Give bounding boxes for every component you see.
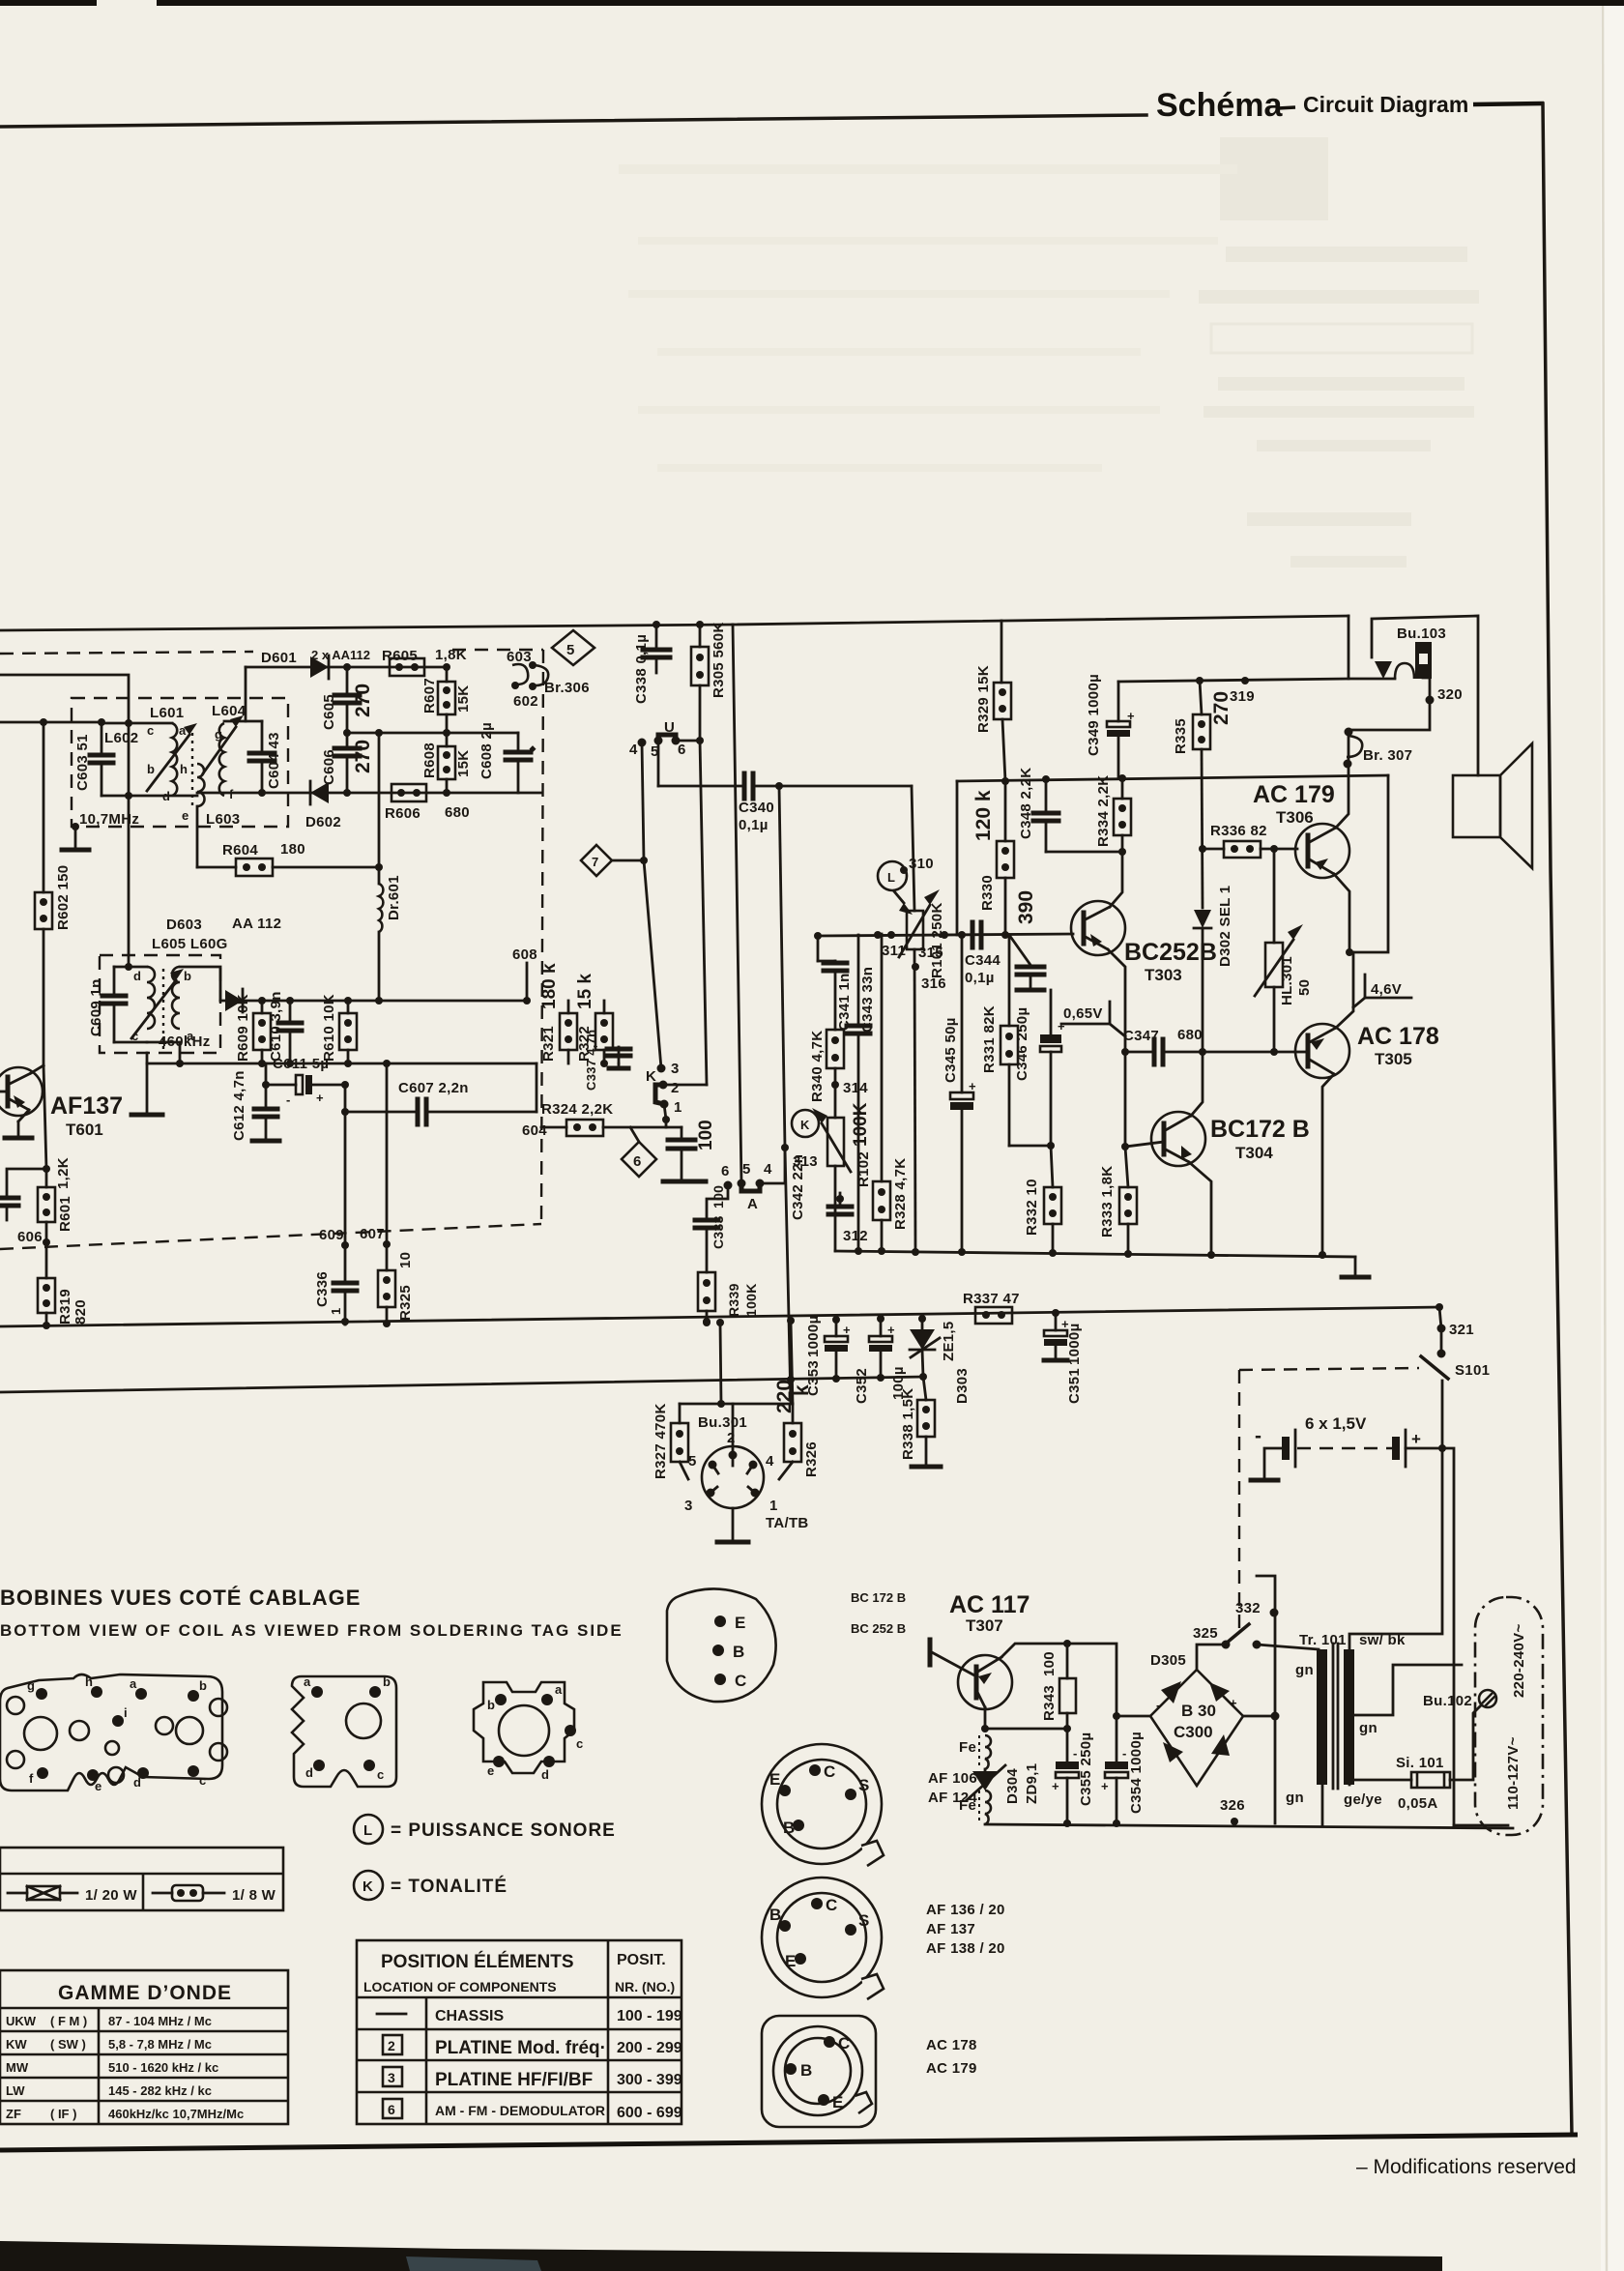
capacitor C355 250u [1056,1761,1079,1769]
svg-text:R332 10: R332 10 [1024,1179,1040,1236]
svg-text:R608: R608 [421,742,438,778]
capacitor C343 33n [857,935,860,1024]
wire AC117 collector node [985,1707,1067,1729]
svg-text:326: 326 [1220,1797,1245,1814]
svg-text:E: E [735,1614,745,1632]
svg-text:S: S [858,1776,869,1794]
capacitor C609 1n [113,967,116,994]
wire A pin4 down then to R326 drop [760,1148,785,1183]
diamond 6 [630,1127,639,1142]
svg-text:T304: T304 [1235,1144,1273,1162]
wire rail y806 [957,775,1388,781]
svg-text:220-240V~: 220-240V~ [1511,1623,1527,1698]
svg-text:15K: 15K [455,685,472,713]
resistor R338 1,5K [923,1377,926,1400]
wire pin5 down to C340 row [657,741,660,786]
svg-text:R326: R326 [803,1441,820,1477]
svg-text:+: + [1052,1779,1059,1793]
svg-text:L602: L602 [104,730,138,746]
svg-text:R340 4,7K: R340 4,7K [809,1031,826,1102]
svg-text:460kHz/kc 10,7MHz/Mc: 460kHz/kc 10,7MHz/Mc [108,2107,244,2121]
svg-text:321: 321 [1449,1322,1474,1338]
svg-text:E: E [785,1952,796,1970]
svg-text:b: b [487,1698,495,1712]
capacitor C610 3,9n [289,1001,292,1021]
svg-text:e: e [182,808,188,823]
ground [62,848,89,853]
svg-text:= PUISSANCE SONORE: = PUISSANCE SONORE [391,1820,616,1841]
svg-text:LW: LW [6,2083,25,2098]
module dashed box right edge [541,650,543,1224]
legend K = TONALITE [354,1871,383,1900]
resistor R605 [390,658,424,676]
wire AC117 base feed [928,1640,933,1665]
resistor R604 [197,866,236,869]
capacitor C608 2u [517,733,520,750]
wire 812 node down to Y1 [785,1148,791,1404]
svg-text:L603: L603 [206,811,240,828]
coil L60G [172,967,180,1029]
svg-text:Si. 101: Si. 101 [1396,1755,1444,1771]
svg-text:b: b [199,1678,207,1693]
svg-text:S: S [858,1911,869,1930]
svg-text:R602 150: R602 150 [55,865,72,930]
capacitor C337 4,7n [618,1047,621,1063]
svg-text:120 k: 120 k [972,790,995,841]
oscillator Fe coil top [985,1735,991,1769]
capacitor C345 50u [961,935,964,1092]
svg-text:ZF: ZF [6,2107,21,2121]
svg-text:606: 606 [17,1229,43,1245]
bottom thick rule [0,2135,1578,2150]
wire row D603 y1035 [220,1000,527,1003]
svg-text:AF 124: AF 124 [928,1790,977,1806]
svg-text:( IF ): ( IF ) [50,2107,76,2121]
svg-text:C612 4,7n: C612 4,7n [231,1070,247,1141]
diode D601 [310,656,329,678]
svg-text:Br.306: Br.306 [544,680,590,696]
thermistor HL301 50 [1273,849,1276,943]
capacitor C604 43 [249,751,275,756]
wire junction to cap100 [666,1126,681,1129]
svg-text:AC 179: AC 179 [926,2060,977,2077]
svg-text:6: 6 [678,742,686,758]
svg-text:h: h [180,762,188,776]
resistor R606 [391,784,426,801]
wire D601 row y690 [246,666,447,669]
svg-text:680: 680 [445,804,470,821]
svg-text:k: k [791,1384,813,1396]
svg-text:1: 1 [769,1498,778,1514]
svg-text:C354 1000µ: C354 1000µ [1128,1732,1145,1814]
svg-text:Dr.601: Dr.601 [386,875,402,920]
node 332 [1270,1609,1279,1617]
faint bleed-through block upper right [1199,137,1479,568]
junction dots on Y2 [787,1376,795,1383]
svg-text:R324 2,2K: R324 2,2K [541,1101,613,1118]
svg-text:3: 3 [671,1061,680,1077]
svg-text:AC 178: AC 178 [1357,1023,1439,1050]
svg-text:R328 4,7K: R328 4,7K [892,1158,909,1230]
svg-text:-: - [1073,1746,1077,1761]
resistor R325 10 [378,1270,395,1307]
svg-text:sw/ bk: sw/ bk [1359,1632,1406,1648]
resistor R329 15K [1000,621,1003,683]
jack contact triangle [1375,661,1392,679]
coil bottom view 3 [474,1682,574,1773]
wire primary bottom to fuse [1349,1780,1411,1785]
svg-text:602: 602 [513,693,538,710]
resistor R322 15k [603,1001,606,1013]
capacitor C349 1000u [1117,734,1120,778]
capacitor C351 1000u [1055,1313,1058,1330]
svg-text:C347: C347 [1123,1028,1159,1044]
top black page edge bar [0,0,1624,6]
svg-text:2: 2 [671,1080,680,1096]
wire BC172B collector up to C347 node [1191,1052,1203,1116]
svg-text:-: - [1156,1698,1160,1712]
svg-text:a: a [179,723,187,738]
resistor R330 120k [1004,781,1007,841]
resistor R601 1,2K [45,1169,48,1187]
wire tank top rail [101,722,172,725]
svg-text:– Modifications reserved: – Modifications reserved [1356,2156,1577,2178]
svg-text:C336: C336 [314,1271,331,1307]
svg-text:270: 270 [352,684,374,717]
svg-text:B 30: B 30 [1181,1702,1216,1720]
svg-text:C349 1000µ: C349 1000µ [1086,674,1102,756]
svg-text:R338 1,5K: R338 1,5K [900,1388,916,1460]
svg-text:C343 33n: C343 33n [859,967,876,1033]
svg-text:D601: D601 [261,650,297,666]
svg-text:310: 310 [909,856,934,872]
svg-text:LOCATION OF COMPONENTS: LOCATION OF COMPONENTS [363,1979,557,1994]
svg-text:C605: C605 [321,694,337,730]
svg-text:T303: T303 [1145,966,1182,984]
svg-text:R605: R605 [382,648,418,664]
svg-text:0,65V: 0,65V [1063,1005,1103,1022]
svg-text:D603: D603 [166,917,202,933]
svg-text:e: e [95,1779,101,1793]
legend L = PUISSANCE SONORE [354,1815,383,1844]
svg-text:87 - 104 MHz / Mc: 87 - 104 MHz / Mc [108,2014,212,2028]
battery dashed box [1239,1368,1419,1370]
svg-text:607: 607 [360,1226,385,1242]
svg-text:R325: R325 [397,1285,414,1321]
svg-text:C337 4,7n: C337 4,7n [584,1030,598,1091]
svg-text:NR. (NO.): NR. (NO.) [615,1979,675,1994]
junction dots on Y1 [341,1318,349,1325]
svg-text:Fe: Fe [959,1739,976,1756]
wire diamond7 to pin4 line [612,859,644,862]
svg-text:1,2K: 1,2K [55,1157,72,1189]
svg-text:510 - 1620 kHz / kc: 510 - 1620 kHz / kc [108,2060,218,2075]
svg-text:315: 315 [918,945,943,961]
capacitor C344 0,1u [941,931,948,939]
svg-text:+: + [887,1323,895,1337]
wire bridge right to battery line [1243,1715,1275,1718]
diamond 5 [552,630,594,665]
svg-text:0,1µ: 0,1µ [739,817,768,833]
potentiometer R102 100K (K tone) [827,1118,844,1166]
svg-text:K: K [362,1878,373,1895]
diode D302 SEL1 [1194,910,1211,928]
wire 1100 to 1150 link [536,1063,538,1112]
wire tank column x133 down [128,796,130,967]
wire bottom rail power [985,1824,1513,1828]
wire 607 vertical [386,1063,389,1270]
svg-text:MW: MW [6,2060,29,2075]
wire rail 319 y705 [1118,679,1348,682]
svg-text:145 - 282 kHz / kc: 145 - 282 kHz / kc [108,2083,212,2098]
wire Dr601 vertical [378,733,381,884]
resistor R331 82K [1008,935,1011,1026]
svg-text:4: 4 [766,1453,774,1470]
wire Bu301 ground stem [732,1508,735,1541]
wire R101 bottom down node 316 [914,949,915,1251]
svg-text:1,8K: 1,8K [435,647,467,663]
coil L601 [172,723,177,796]
svg-text:+: + [843,1323,851,1337]
svg-text:BC252B: BC252B [1124,939,1217,966]
svg-text:+: + [1411,1430,1421,1448]
svg-text:Tr. 101: Tr. 101 [1299,1632,1347,1648]
bridge rectifier B30 C300 [1150,1670,1243,1786]
svg-text:5,8 - 7,8 MHz / Mc: 5,8 - 7,8 MHz / Mc [108,2037,212,2052]
svg-text:680: 680 [1177,1027,1203,1043]
transistor AC179 T306 [1295,824,1349,878]
trimmer arrow L601 [147,735,189,791]
wire L604 top to C604 [224,720,262,723]
wire left feed y698 [0,675,129,723]
capacitor C347 680 [1121,1048,1129,1056]
svg-text:R607: R607 [421,678,438,713]
svg-text:ge/ye: ge/ye [1344,1791,1382,1808]
wire branch left with cap [7,1169,46,1196]
svg-text:AF 138 / 20: AF 138 / 20 [926,1940,1005,1957]
diode D602 [310,782,329,803]
svg-text:-: - [1122,1746,1126,1761]
speaker [1453,775,1500,837]
svg-text:PLATINE Mod. fréq·: PLATINE Mod. fréq· [435,2038,606,2058]
wire top rail H1 [0,625,733,630]
transistor BC252B T303 [1071,901,1125,955]
wire C348/R334 bottoms [1046,851,1122,854]
svg-text:KW: KW [6,2037,27,2052]
svg-text:Bu.301: Bu.301 [698,1414,747,1431]
capacitor C333 100 [695,1218,718,1223]
svg-text:c: c [147,723,154,738]
svg-text:ZD9,1: ZD9,1 [1024,1763,1040,1804]
svg-text:Schéma: Schéma [1156,87,1283,124]
wire long vertical from C340 node down [779,786,785,1148]
circle K [792,1110,819,1137]
svg-text:2 x AA112: 2 x AA112 [311,648,370,662]
svg-text:110-127V~: 110-127V~ [1505,1736,1522,1810]
svg-text:R601: R601 [57,1196,73,1232]
svg-text:+: + [1101,1779,1109,1793]
wire K pin1 down to R324 row [664,1104,666,1120]
svg-text:PLATINE HF/FI/BF: PLATINE HF/FI/BF [435,2070,593,2090]
svg-text:b: b [184,969,191,983]
svg-text:Bu.103: Bu.103 [1397,626,1446,642]
transistor AF137 T601 [0,1067,43,1116]
faint bleed-through ruled area center [619,164,1237,472]
svg-text:100: 100 [1041,1651,1058,1676]
svg-text:100: 100 [710,1185,726,1208]
wire ground bus amp y1294 [835,1251,1355,1257]
svg-text:g: g [215,727,222,742]
1/20W symbol [8,1892,27,1895]
wire BC252B collector down [1108,949,1125,1147]
wire mixer vert from R602 junction [43,722,45,892]
resistor R334 2,2K [1121,778,1124,799]
svg-text:D305: D305 [1150,1652,1186,1669]
capacitor C606 [346,733,349,746]
table GAMME D'ONDE [0,1970,288,2124]
wire tank bottom rail [101,795,197,798]
svg-text:C607 2,2n: C607 2,2n [398,1080,469,1096]
node 606 [43,1238,50,1246]
svg-text:K: K [646,1068,656,1085]
capacitor C353 1000u [835,1320,838,1336]
wire D602 row y820 [197,792,541,795]
wire C340 right corner down to R101 [912,786,914,911]
svg-text:D602: D602 [305,814,341,830]
460kHz dashed box [100,955,220,1053]
svg-text:0,1µ: 0,1µ [965,970,995,986]
oscillator Fe coil bottom [985,1791,991,1824]
svg-text:C346 250µ: C346 250µ [1014,1007,1030,1081]
wire AC179 collector down to node [1334,874,1349,952]
svg-text:C341 1n: C341 1n [836,973,853,1031]
svg-text:+: + [1061,1317,1069,1331]
svg-text:+: + [316,1091,324,1105]
svg-text:+: + [1127,709,1135,723]
zener D303 ZE1,5 [921,1319,924,1329]
right page border [1543,103,1572,2135]
svg-text:R606: R606 [385,805,420,822]
trimmer arrow L604 [203,727,236,773]
svg-text:ZE1,5: ZE1,5 [941,1321,957,1361]
resistor R335 270 [1196,677,1203,684]
svg-text:b: b [383,1674,391,1689]
wire 320 net [1348,678,1430,730]
wire bus Y1 [0,1307,1439,1326]
svg-text:-: - [286,1092,290,1107]
svg-text:( SW ): ( SW ) [50,2037,86,2052]
1/8W symbol [153,1892,172,1895]
svg-text:C: C [824,1762,835,1781]
svg-text:R339: R339 [726,1283,741,1317]
wire fuse to plug [1450,1705,1481,1780]
wire tank bottom [114,1042,180,1063]
svg-text:C333: C333 [710,1215,726,1249]
capacitor C352 100u [880,1319,883,1336]
svg-text:50: 50 [1296,979,1313,996]
svg-text:GAMME D’ONDE: GAMME D’ONDE [58,1982,232,2004]
svg-text:+: + [1230,1696,1237,1710]
wire K pin2 to U line [663,1084,707,1087]
svg-text:Bu.102: Bu.102 [1423,1693,1472,1709]
svg-text:R305 560K: R305 560K [710,622,727,698]
wire collector down [43,1065,46,1169]
svg-text:BOTTOM VIEW OF COIL AS VIE: BOTTOM VIEW OF COIL AS VIEWED FROM SOLDE… [0,1621,623,1640]
svg-text:15K: 15K [455,750,472,777]
svg-text:L601: L601 [150,705,184,721]
trimmer arrow [131,980,176,1038]
svg-text:270: 270 [1210,691,1232,725]
wire row y1100 [147,1063,536,1065]
svg-text:AM - FM - DEMODULATOR: AM - FM - DEMODULATOR [435,2103,605,2118]
header rule left [0,115,1146,127]
svg-text:180 k: 180 k [539,963,560,1009]
capacitor C605 [346,667,349,693]
svg-text:AF137: AF137 [50,1092,123,1120]
svg-text:a: a [130,1676,137,1691]
svg-text:POSITION ÉLÉMENTS: POSITION ÉLÉMENTS [381,1951,574,1972]
svg-text:4: 4 [629,742,638,758]
svg-text:R609 10K: R609 10K [235,994,251,1062]
svg-text:L605 L60G: L605 L60G [152,936,228,952]
resistor R328 4,7K [881,934,884,1181]
svg-text:C: C [735,1672,746,1690]
svg-text:D304: D304 [1004,1768,1021,1804]
svg-text:609: 609 [319,1227,344,1243]
wire Y1 drop to Bu301 rail [720,1323,721,1404]
coil bottom view 1 [0,1674,227,1791]
svg-text:C608 2µ: C608 2µ [478,722,495,779]
junction dots row 820 [343,789,351,797]
svg-text:604: 604 [522,1122,547,1139]
svg-text:T601: T601 [66,1121,103,1139]
headphone jack Bu.103 box [1348,616,1395,679]
svg-text:3: 3 [684,1498,693,1514]
resistor R340 4,7K [826,1030,844,1068]
svg-text:AF 106: AF 106 [928,1770,977,1787]
svg-text:d: d [133,1775,141,1790]
svg-text:0,05A: 0,05A [1398,1795,1438,1812]
svg-text:h: h [85,1674,93,1689]
wire bridge top to 325 switch [1197,1645,1226,1670]
svg-text:C340: C340 [739,800,774,816]
svg-text:C603 51: C603 51 [74,734,91,791]
wire tank top to row [114,966,147,969]
svg-text:4: 4 [764,1161,772,1178]
resistor R610 10K [347,1001,350,1013]
svg-text:316: 316 [921,975,946,992]
diamond 7 [581,845,612,876]
jack contact arc [1395,663,1414,679]
svg-text:C342 22n: C342 22n [790,1154,806,1220]
svg-text:6: 6 [388,2102,395,2117]
svg-text:BC172 B: BC172 B [1210,1116,1310,1143]
svg-text:C345 50µ: C345 50µ [942,1017,959,1083]
pinout BC172B/BC252B [667,1588,776,1702]
svg-text:UKW: UKW [6,2014,37,2028]
svg-text:K: K [800,1118,810,1132]
svg-text:L: L [363,1822,372,1839]
resistor R319 820 [38,1278,55,1313]
wire L603 tail down to R604 row [196,806,199,867]
wire K line down [644,860,661,1068]
svg-text:314: 314 [843,1080,868,1096]
svg-text:603: 603 [507,649,532,665]
svg-text:BC 172 B: BC 172 B [851,1590,906,1605]
svg-text:C348 2,2K: C348 2,2K [1018,768,1034,839]
svg-text:C344: C344 [965,952,1000,969]
wire tank bottom to gnd [146,1053,149,1114]
